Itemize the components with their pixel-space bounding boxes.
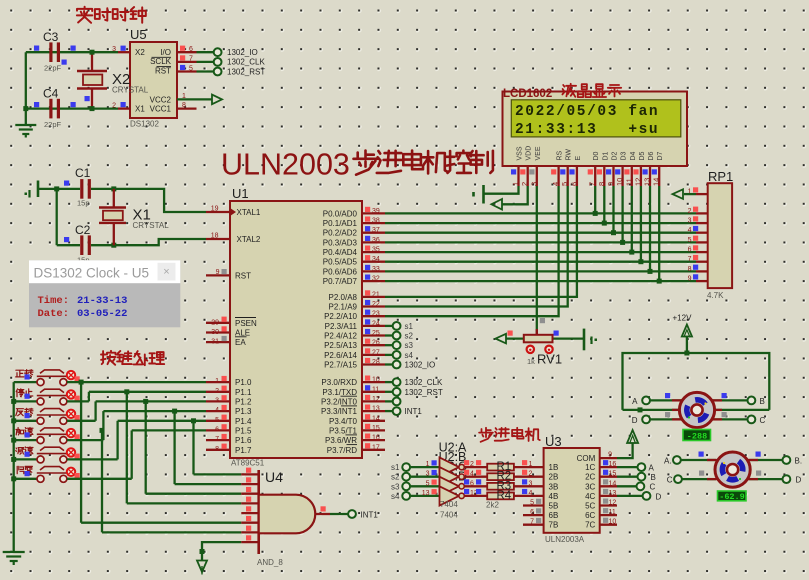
svg-text:37: 37 [372, 227, 380, 234]
svg-text:21:33:13 +su: 21:33:13 +su [515, 122, 659, 138]
svg-text:CRYSTAL: CRYSTAL [133, 221, 170, 230]
svg-text:2B: 2B [549, 473, 559, 482]
svg-text:1C: 1C [585, 463, 595, 472]
svg-text:C4: C4 [43, 87, 59, 101]
svg-text:I/O: I/O [160, 48, 171, 57]
svg-text:VCC1: VCC1 [150, 105, 172, 114]
svg-text:VCC2: VCC2 [150, 96, 172, 105]
svg-text:2: 2 [215, 388, 219, 395]
svg-text:s4: s4 [405, 351, 414, 360]
svg-text:11: 11 [609, 509, 616, 516]
svg-text:13: 13 [609, 490, 617, 497]
svg-text:P1.2: P1.2 [235, 397, 252, 406]
svg-text:C: C [760, 416, 766, 425]
svg-text:10: 10 [609, 519, 617, 526]
svg-text:2: 2 [529, 471, 533, 478]
svg-text:2k2: 2k2 [486, 501, 499, 510]
svg-text:B: B [651, 473, 656, 482]
svg-text:34: 34 [372, 256, 380, 263]
svg-text:RW: RW [566, 149, 573, 161]
svg-text:P2.7/A15: P2.7/A15 [324, 361, 357, 370]
svg-text:3B: 3B [549, 482, 559, 491]
svg-text:29: 29 [211, 319, 219, 326]
svg-text:6: 6 [189, 46, 193, 53]
svg-text:9: 9 [608, 452, 612, 459]
svg-text:4B: 4B [549, 492, 559, 501]
svg-text:D2: D2 [612, 151, 619, 160]
svg-text:RST: RST [235, 271, 251, 280]
svg-text:1302_CLK: 1302_CLK [405, 378, 443, 387]
svg-text:P3.7/RD: P3.7/RD [327, 446, 357, 455]
svg-text:15: 15 [609, 471, 617, 478]
svg-text:P0.7/AD7: P0.7/AD7 [323, 277, 358, 286]
svg-text:7404: 7404 [440, 500, 458, 509]
svg-text:1B: 1B [549, 463, 559, 472]
svg-text:10: 10 [615, 178, 624, 186]
svg-text:RS: RS [557, 150, 564, 160]
svg-text:16: 16 [372, 435, 380, 442]
svg-text:P1.5: P1.5 [235, 426, 252, 435]
svg-text:P3.3/INT1: P3.3/INT1 [321, 407, 358, 416]
svg-text:1: 1 [182, 93, 186, 100]
svg-text:1: 1 [215, 378, 219, 385]
svg-text:P1.6: P1.6 [235, 436, 252, 445]
svg-text:P2.5/A13: P2.5/A13 [324, 341, 357, 350]
svg-text:1302_RST: 1302_RST [405, 388, 443, 397]
svg-text:23: 23 [372, 311, 380, 318]
svg-text:5: 5 [215, 417, 219, 424]
svg-text:12: 12 [372, 396, 380, 403]
svg-text:s3: s3 [391, 482, 400, 491]
svg-text:1: 1 [511, 182, 520, 186]
svg-text:VEE: VEE [535, 146, 542, 160]
svg-text:-288: -288 [687, 431, 707, 441]
svg-text:X1: X1 [135, 105, 145, 114]
svg-text:VSS: VSS [517, 146, 524, 160]
svg-text:5: 5 [688, 237, 692, 244]
svg-text:5B: 5B [549, 502, 559, 511]
svg-text:P2.0/A8: P2.0/A8 [329, 293, 358, 302]
svg-text:9: 9 [606, 182, 615, 186]
svg-text:COM: COM [577, 454, 596, 463]
svg-text:PSEN: PSEN [235, 319, 257, 328]
svg-text:P0.3/AD3: P0.3/AD3 [323, 238, 358, 247]
svg-text:8: 8 [688, 266, 692, 273]
svg-text:D1: D1 [602, 151, 609, 160]
svg-text:EA: EA [235, 338, 246, 347]
svg-text:03-05-22: 03-05-22 [77, 308, 127, 320]
svg-text:26: 26 [372, 340, 380, 347]
svg-text:RST: RST [155, 66, 171, 75]
svg-text:AND_8: AND_8 [257, 558, 283, 567]
svg-text:U3: U3 [545, 434, 562, 449]
svg-text:17: 17 [372, 444, 380, 451]
svg-text:s2: s2 [405, 332, 414, 341]
svg-text:5: 5 [530, 500, 534, 507]
svg-text:6: 6 [530, 509, 534, 516]
svg-text:14: 14 [372, 415, 380, 422]
svg-text:13: 13 [643, 178, 652, 186]
svg-text:U5: U5 [130, 27, 147, 42]
svg-text:8: 8 [182, 102, 186, 109]
svg-text:Date:: Date: [38, 308, 70, 320]
svg-text:P2.3/A11: P2.3/A11 [325, 322, 358, 331]
svg-text:6: 6 [569, 182, 578, 186]
svg-text:8: 8 [215, 446, 219, 453]
svg-text:Time:: Time: [38, 295, 70, 307]
svg-text:9: 9 [688, 276, 692, 283]
svg-text:28: 28 [372, 359, 380, 366]
svg-text:36: 36 [372, 237, 380, 244]
svg-text:C3: C3 [43, 30, 59, 44]
svg-text:3: 3 [529, 182, 538, 186]
svg-text:4: 4 [215, 407, 219, 414]
svg-text:s1: s1 [391, 463, 400, 472]
svg-text:DS1302: DS1302 [130, 120, 159, 129]
svg-text:7: 7 [588, 182, 597, 186]
svg-text:8: 8 [597, 182, 606, 186]
svg-text:14: 14 [609, 480, 617, 487]
svg-text:7: 7 [530, 519, 534, 526]
svg-text:15p: 15p [77, 199, 90, 208]
svg-text:A: A [649, 464, 655, 473]
svg-text:INT1: INT1 [405, 407, 423, 416]
svg-text:D6: D6 [648, 151, 655, 160]
svg-text:6B: 6B [549, 511, 559, 520]
svg-text:P3.2/INT0: P3.2/INT0 [321, 397, 358, 406]
svg-text:35: 35 [372, 247, 380, 254]
svg-text:7B: 7B [549, 521, 559, 530]
svg-text:DS1302 Clock - U5: DS1302 Clock - U5 [34, 266, 150, 281]
svg-text:P1.3: P1.3 [235, 407, 252, 416]
svg-text:21-33-13: 21-33-13 [77, 295, 127, 307]
svg-text:5: 5 [560, 182, 569, 186]
svg-text:+12V: +12V [673, 314, 693, 323]
svg-text:P1.4: P1.4 [235, 417, 252, 426]
svg-text:P0.4/AD4: P0.4/AD4 [323, 248, 358, 257]
svg-text:4: 4 [529, 490, 533, 497]
svg-text:22pF: 22pF [44, 120, 62, 129]
svg-text:1302_CLK: 1302_CLK [227, 58, 265, 67]
svg-text:3C: 3C [585, 482, 595, 491]
svg-text:XTAL1: XTAL1 [237, 208, 261, 217]
svg-text:24: 24 [372, 320, 380, 327]
svg-text:4C: 4C [585, 492, 595, 501]
svg-text:P3.4/T0: P3.4/T0 [329, 417, 358, 426]
svg-text:1: 1 [426, 461, 430, 468]
svg-text:C1: C1 [75, 166, 91, 180]
svg-text:s4: s4 [391, 492, 400, 501]
svg-text:3: 3 [215, 397, 219, 404]
svg-text:B: B [760, 397, 765, 406]
svg-text:U1: U1 [232, 186, 249, 201]
svg-text:CRYSTAL: CRYSTAL [112, 86, 149, 95]
svg-text:33: 33 [372, 266, 380, 273]
svg-text:D4: D4 [630, 151, 637, 160]
svg-text:27: 27 [372, 349, 380, 356]
svg-text:P1.0: P1.0 [235, 378, 252, 387]
svg-text:4.7K: 4.7K [707, 291, 724, 300]
svg-text:P1.7: P1.7 [235, 446, 252, 455]
svg-text:P2.2/A10: P2.2/A10 [324, 312, 357, 321]
svg-text:12: 12 [609, 500, 617, 507]
svg-text:B.: B. [795, 456, 803, 465]
svg-text:7C: 7C [585, 521, 595, 530]
svg-text:P0.2/AD2: P0.2/AD2 [323, 229, 358, 238]
svg-text:38: 38 [372, 218, 380, 225]
svg-text:21: 21 [372, 291, 380, 298]
svg-text:13: 13 [422, 490, 430, 497]
svg-text:5: 5 [426, 480, 430, 487]
svg-text:VDD: VDD [526, 146, 533, 161]
svg-text:1302_RST: 1302_RST [227, 67, 265, 76]
svg-text:16: 16 [609, 461, 617, 468]
svg-text:D: D [796, 476, 802, 485]
svg-text:P1.1: P1.1 [235, 388, 252, 397]
svg-text:7: 7 [189, 56, 193, 63]
svg-text:C: C [650, 483, 656, 492]
svg-text:U4: U4 [265, 469, 283, 485]
svg-text:32: 32 [372, 276, 380, 283]
svg-text:X2: X2 [135, 48, 145, 57]
svg-text:6: 6 [688, 247, 692, 254]
svg-text:5C: 5C [585, 502, 595, 511]
svg-text:12: 12 [633, 178, 642, 186]
svg-text:A: A [632, 397, 638, 406]
svg-text:ULN2003: ULN2003 [221, 148, 350, 182]
svg-text:2C: 2C [585, 473, 595, 482]
svg-text:D0: D0 [593, 151, 600, 160]
svg-text:2: 2 [520, 182, 529, 186]
svg-text:22: 22 [372, 301, 380, 308]
svg-text:6: 6 [470, 480, 474, 487]
svg-text:P3.5/T1: P3.5/T1 [329, 426, 358, 435]
svg-text:11: 11 [624, 178, 633, 186]
svg-text:XTAL2: XTAL2 [237, 235, 261, 244]
svg-text:1302_IO: 1302_IO [405, 361, 436, 370]
svg-text:RP1: RP1 [708, 169, 733, 184]
svg-text:3: 3 [426, 471, 430, 478]
svg-text:5: 5 [189, 65, 193, 72]
svg-text:D: D [632, 416, 638, 425]
svg-text:E: E [575, 156, 582, 161]
svg-text:AT89C51: AT89C51 [231, 459, 265, 468]
svg-text:2: 2 [112, 102, 116, 109]
svg-text:P3.0/RXD: P3.0/RXD [321, 378, 357, 387]
svg-text:4: 4 [470, 471, 474, 478]
svg-text:1302_IO: 1302_IO [227, 48, 258, 57]
svg-text:30: 30 [211, 329, 219, 336]
svg-text:1: 1 [529, 461, 533, 468]
svg-text:10: 10 [372, 377, 380, 384]
svg-text:14: 14 [652, 178, 661, 186]
svg-text:3: 3 [112, 46, 116, 53]
svg-text:C: C [667, 476, 673, 485]
svg-text:39: 39 [372, 208, 380, 215]
svg-text:13: 13 [372, 406, 380, 413]
svg-text:LCD1602: LCD1602 [503, 88, 552, 100]
svg-text:9: 9 [216, 269, 220, 276]
svg-text:D: D [656, 492, 662, 501]
svg-text:P2.6/A14: P2.6/A14 [324, 351, 357, 360]
svg-text:31: 31 [211, 339, 219, 346]
svg-text:P2.1/A9: P2.1/A9 [329, 303, 358, 312]
svg-text:3: 3 [688, 218, 692, 225]
svg-text:D3: D3 [621, 151, 628, 160]
svg-text:A.: A. [664, 456, 672, 465]
svg-text:s1: s1 [405, 322, 414, 331]
svg-text:P0.1/AD1: P0.1/AD1 [323, 219, 358, 228]
svg-text:6: 6 [215, 426, 219, 433]
svg-text:4: 4 [688, 227, 692, 234]
svg-text:P3.6/WR: P3.6/WR [325, 436, 357, 445]
svg-text:11: 11 [372, 386, 379, 393]
svg-text:P3.1/TXD: P3.1/TXD [322, 388, 357, 397]
svg-text:P2.4/A12: P2.4/A12 [324, 332, 357, 341]
svg-text:2: 2 [470, 461, 474, 468]
svg-text:SCLK: SCLK [150, 57, 172, 66]
svg-text:P0.0/AD0: P0.0/AD0 [323, 209, 358, 218]
svg-text:7404: 7404 [440, 511, 458, 520]
svg-text:25: 25 [372, 330, 380, 337]
svg-text:22pF: 22pF [44, 64, 62, 73]
svg-text:1k: 1k [527, 357, 535, 366]
svg-text:ULN2003A: ULN2003A [545, 535, 585, 544]
svg-text:-62.9: -62.9 [719, 492, 745, 502]
svg-text:2022/05/03 fan: 2022/05/03 fan [515, 104, 659, 120]
svg-text:7: 7 [688, 256, 692, 263]
svg-text:P0.5/AD5: P0.5/AD5 [323, 258, 358, 267]
svg-text:7: 7 [215, 436, 219, 443]
svg-text:ALE: ALE [235, 329, 250, 338]
svg-text:2: 2 [688, 208, 692, 215]
svg-text:RV1: RV1 [537, 352, 562, 367]
svg-text:P0.6/AD6: P0.6/AD6 [323, 267, 358, 276]
svg-text:INT1: INT1 [361, 511, 379, 520]
svg-text:s2: s2 [391, 473, 400, 482]
svg-text:s3: s3 [405, 341, 414, 350]
svg-text:D5: D5 [639, 151, 646, 160]
svg-text:15: 15 [372, 425, 380, 432]
svg-text:6C: 6C [585, 511, 595, 520]
svg-text:C2: C2 [75, 223, 91, 237]
svg-text:3: 3 [529, 480, 533, 487]
svg-text:D7: D7 [657, 151, 664, 160]
svg-text:×: × [163, 266, 169, 278]
svg-text:4: 4 [551, 182, 560, 186]
